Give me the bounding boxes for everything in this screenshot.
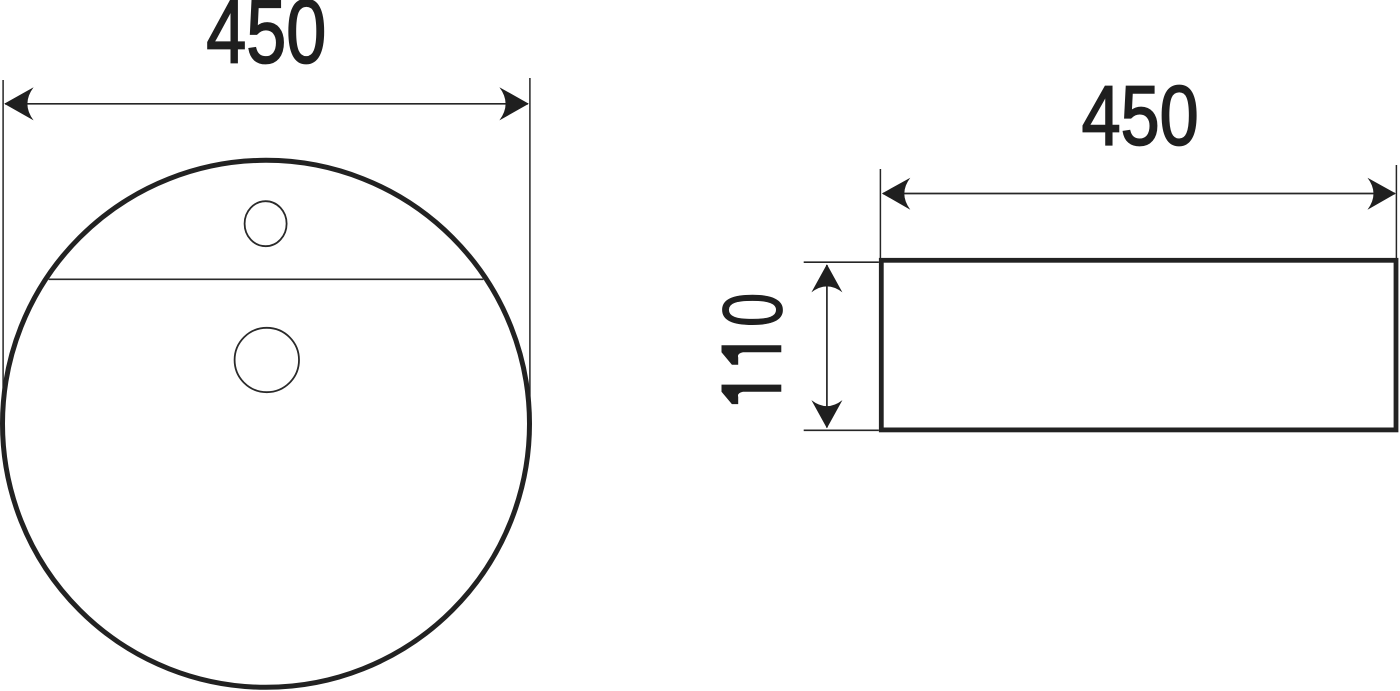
extension tick top (110 dimension) [804,261,879,263]
dimension line 450 (top view) [5,103,528,105]
dimension line 110 (side view) [826,265,828,428]
arrowhead up (110) [811,264,842,292]
svg-text:0: 0 [705,293,799,328]
overflow chord line [49,278,484,280]
drain hole [235,328,299,392]
arrowhead left (side view) [882,178,910,210]
svg-text:450: 450 [1082,68,1199,162]
extension line right (side view top) [1395,165,1397,260]
arrowhead right (top view) [499,87,528,120]
arrowhead down (110) [811,400,842,428]
faucet hole [245,201,287,246]
dimension label 110 (side view) [705,293,799,404]
extension line left (top view) [2,80,4,424]
extension line right (top view) [529,78,531,424]
basin body rectangle (side view) [881,260,1396,430]
extension line left (side view top) [879,169,881,260]
basin rim circle (top view) [3,160,530,687]
svg-text:450: 450 [206,0,326,83]
arrowhead right (side view) [1368,178,1396,210]
extension tick bottom (110 dimension) [804,429,879,431]
arrowhead left (top view) [4,87,33,120]
dimension line 450 (side view) [883,193,1395,195]
